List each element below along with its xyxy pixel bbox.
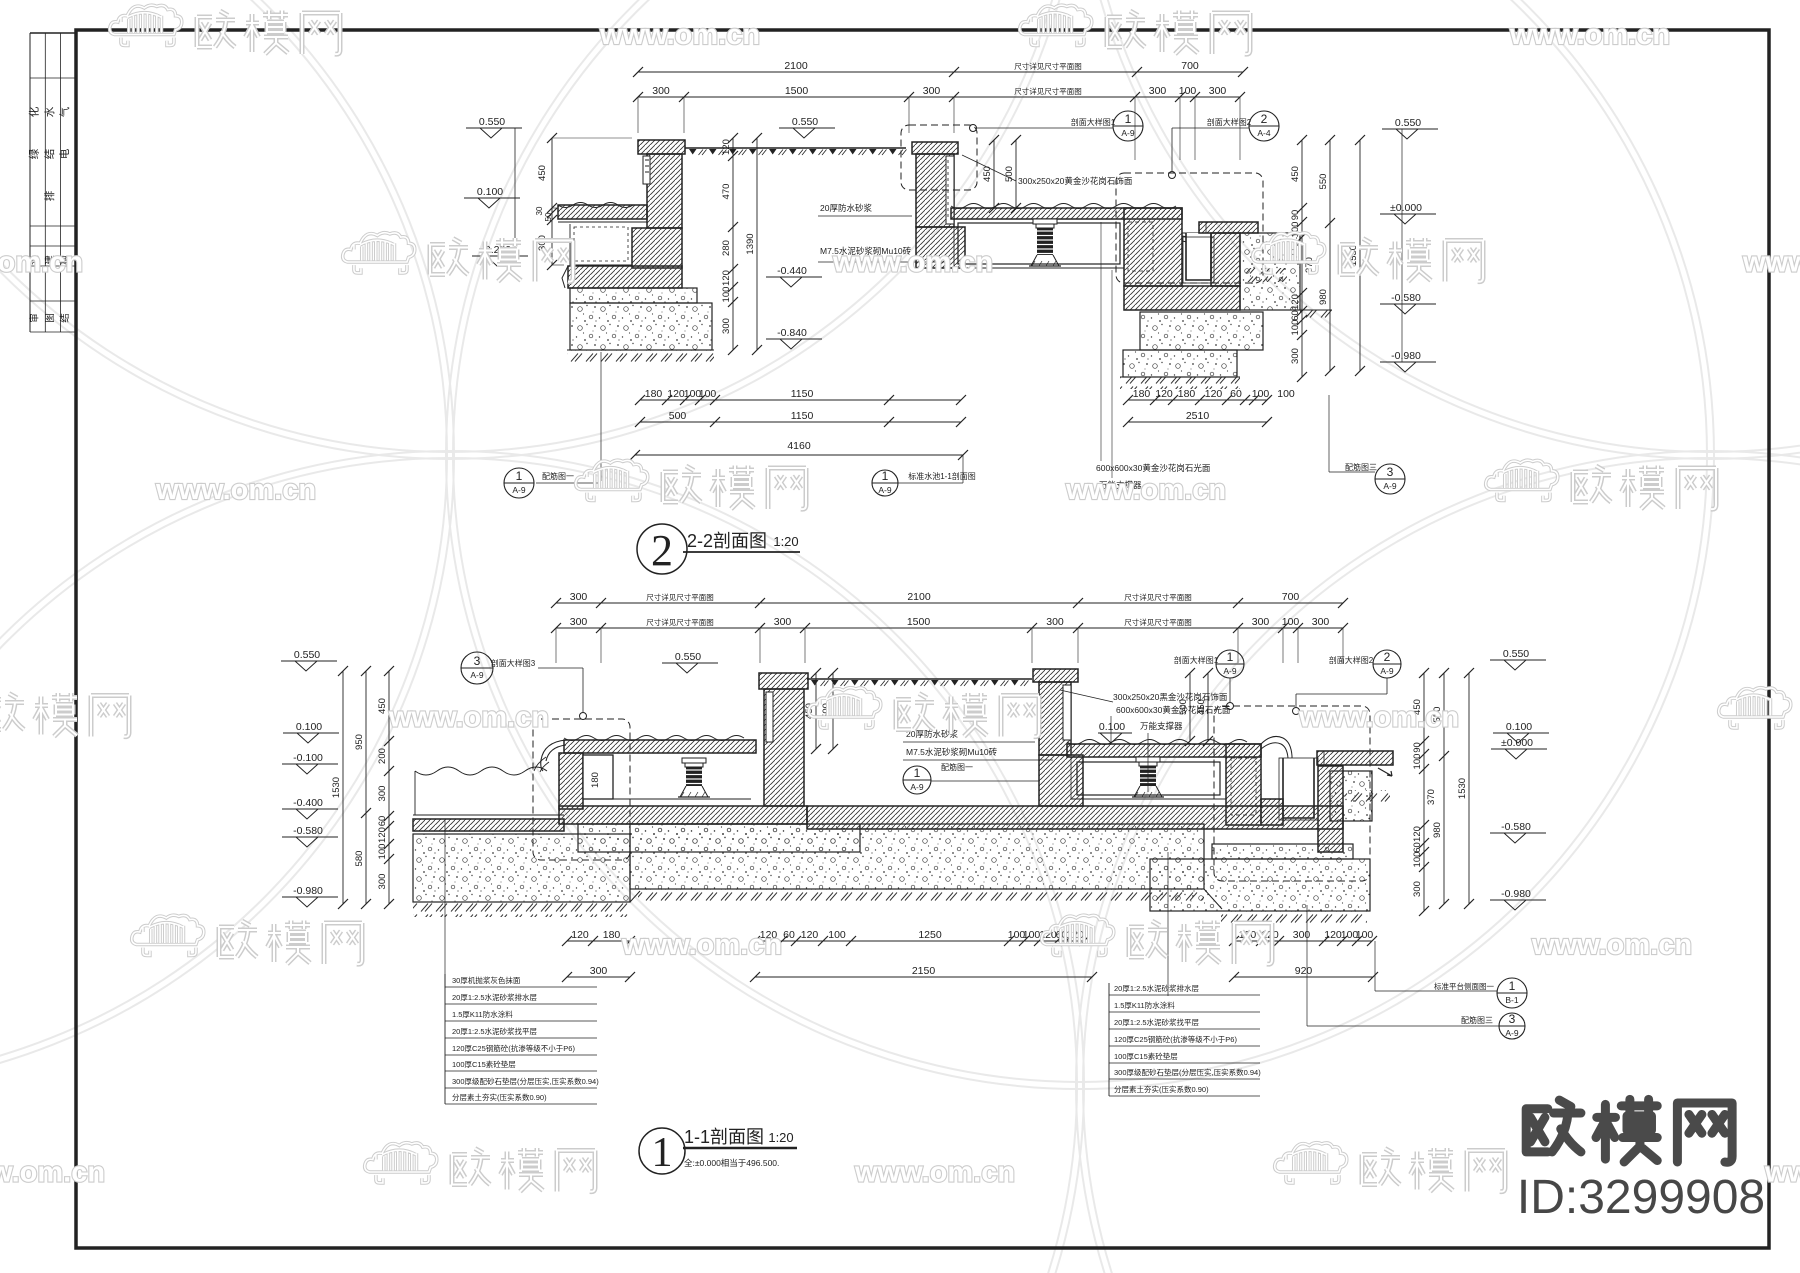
dashed callout rect 3 <box>533 719 630 860</box>
svg-text:20厚1:2.5水泥砂浆排水层: 20厚1:2.5水泥砂浆排水层 <box>1114 983 1200 993</box>
right upstand <box>1124 208 1182 286</box>
svg-text:100: 100 <box>1023 929 1041 941</box>
svg-text:1: 1 <box>516 469 523 483</box>
title block table <box>30 32 76 34</box>
detail callout rect 2 <box>1116 173 1263 283</box>
svg-text:结: 结 <box>43 149 56 160</box>
notes column left <box>444 974 446 1104</box>
weir spout <box>541 740 566 771</box>
svg-text:0.550: 0.550 <box>294 649 320 661</box>
pedestal <box>1136 757 1160 762</box>
right footing <box>1140 312 1263 350</box>
svg-text:450: 450 <box>1196 699 1207 715</box>
svg-text:300: 300 <box>377 874 388 890</box>
wall cap dims <box>815 673 817 749</box>
svg-text:300: 300 <box>1209 85 1227 97</box>
svg-text:370: 370 <box>1426 789 1437 805</box>
svg-text:水: 水 <box>44 106 56 117</box>
right dim stacks <box>1423 673 1425 911</box>
svg-text:120: 120 <box>1290 294 1301 310</box>
svg-text:90: 90 <box>1412 742 1423 753</box>
svg-text:100: 100 <box>1282 616 1300 628</box>
svg-text:100: 100 <box>377 844 388 860</box>
drain channel <box>1283 758 1314 818</box>
right curb paving <box>1317 751 1393 765</box>
svg-text:300: 300 <box>570 616 588 628</box>
om.cn logo <box>1526 1099 1732 1162</box>
svg-text:120: 120 <box>1205 388 1223 400</box>
svg-text:20厚1:2.5水泥砂浆找平层: 20厚1:2.5水泥砂浆找平层 <box>1114 1017 1200 1027</box>
svg-text:A-9: A-9 <box>1383 481 1397 491</box>
svg-text:120: 120 <box>1412 826 1423 842</box>
right soil <box>1330 771 1372 821</box>
svg-text:100: 100 <box>1179 85 1197 97</box>
svg-text:绿: 绿 <box>28 148 41 159</box>
svg-text:450: 450 <box>982 166 993 182</box>
svg-text:尺寸详见尺寸平面图: 尺寸详见尺寸平面图 <box>1124 617 1192 627</box>
right dim stacks <box>1301 140 1303 377</box>
svg-text:60: 60 <box>1412 842 1423 853</box>
svg-text:120: 120 <box>667 388 685 400</box>
svg-text:300: 300 <box>570 591 588 603</box>
bottom dims left group <box>640 399 715 401</box>
svg-text:980: 980 <box>1432 822 1443 838</box>
left wall body <box>647 154 682 228</box>
svg-text:剖面大样图2: 剖面大样图2 <box>1207 117 1252 127</box>
svg-text:剖面大样图1: 剖面大样图1 <box>1071 117 1116 127</box>
top dim chains <box>638 71 1243 73</box>
svg-text:1500: 1500 <box>907 616 931 628</box>
svg-text:标准平台侧面图一: 标准平台侧面图一 <box>1434 981 1494 991</box>
svg-text:0.550: 0.550 <box>675 651 701 663</box>
top dim chains <box>556 602 1343 604</box>
deck void <box>1070 757 1072 799</box>
wall lining right <box>946 156 954 224</box>
channel right wall <box>1318 766 1343 852</box>
svg-text:300: 300 <box>1252 616 1270 628</box>
right soil block <box>1240 233 1300 310</box>
ground hatch right <box>1120 377 1240 389</box>
detail callout rect 1 <box>901 125 977 190</box>
svg-text:20厚防水砂浆: 20厚防水砂浆 <box>820 203 872 213</box>
svg-text:-0.980: -0.980 <box>1501 888 1531 900</box>
svg-text:1:20: 1:20 <box>768 1130 793 1145</box>
plaza row <box>807 678 1032 680</box>
mid vertical dim chain <box>732 138 734 350</box>
svg-text:2150: 2150 <box>912 965 936 977</box>
svg-text:1: 1 <box>914 766 921 780</box>
svg-text:1150: 1150 <box>791 410 814 422</box>
svg-text:0.100: 0.100 <box>477 186 503 198</box>
center wall body <box>916 154 954 227</box>
rebar callout mid <box>903 766 931 794</box>
svg-text:1530: 1530 <box>331 777 342 798</box>
svg-text:450: 450 <box>537 165 548 181</box>
svg-text:600x600x30黄金沙花岗石光面: 600x600x30黄金沙花岗石光面 <box>1116 705 1231 715</box>
svg-text:300: 300 <box>1412 881 1423 897</box>
svg-text:300x250x20黑金沙花岗石饰面: 300x250x20黑金沙花岗石饰面 <box>1113 692 1228 702</box>
center wall cap <box>912 142 958 154</box>
svg-text:450: 450 <box>1290 166 1301 182</box>
svg-text:300: 300 <box>590 965 608 977</box>
svg-text:0.100: 0.100 <box>1506 721 1532 733</box>
pedestal <box>682 758 706 763</box>
svg-text:1: 1 <box>1227 650 1234 664</box>
svg-text:120: 120 <box>571 929 589 941</box>
svg-text:2: 2 <box>651 526 673 575</box>
svg-text:-0.400: -0.400 <box>293 797 323 809</box>
svg-text:A-9: A-9 <box>910 782 924 792</box>
svg-text:-0.100: -0.100 <box>293 752 323 764</box>
cap dims 450/500 <box>993 140 995 208</box>
svg-text:300: 300 <box>1290 348 1301 364</box>
svg-text:剖面大样图3: 剖面大样图3 <box>491 658 536 668</box>
svg-text:图: 图 <box>45 313 56 323</box>
svg-text:100: 100 <box>828 929 846 941</box>
svg-text:700: 700 <box>1282 591 1300 603</box>
svg-text:www.om.cn: www.om.cn <box>1509 19 1670 51</box>
svg-text:尺寸详见尺寸平面图: 尺寸详见尺寸平面图 <box>1124 592 1192 602</box>
svg-text:100: 100 <box>721 287 732 303</box>
svg-text:剖面大样图2: 剖面大样图2 <box>1329 655 1374 665</box>
leader to rebar callout <box>600 352 602 481</box>
svg-text:950: 950 <box>354 734 365 750</box>
svg-text:A-4: A-4 <box>1257 128 1271 138</box>
svg-text:化: 化 <box>28 106 41 117</box>
deck slab on pedestals <box>951 208 1182 219</box>
notes leader left <box>444 820 446 988</box>
svg-text:180: 180 <box>590 772 601 788</box>
svg-text:全:±0.000相当于496.500.: 全:±0.000相当于496.500. <box>684 1158 779 1168</box>
svg-text:120: 120 <box>377 827 388 843</box>
svg-text:剖面大样图1: 剖面大样图1 <box>1174 655 1219 665</box>
svg-text:300厚级配砂石垫层(分层压实,压实系数0.94): 300厚级配砂石垫层(分层压实,压实系数0.94) <box>452 1076 599 1086</box>
svg-text:1-1剖面图: 1-1剖面图 <box>684 1127 764 1147</box>
center wall cap <box>1033 669 1078 682</box>
watermark tiles <box>110 5 340 54</box>
base slab right <box>1124 286 1240 310</box>
svg-text:尺寸详见尺寸平面图: 尺寸详见尺寸平面图 <box>646 617 714 627</box>
svg-text:2: 2 <box>1261 112 1268 126</box>
pool left break edge <box>414 771 416 815</box>
svg-text:配筋图一: 配筋图一 <box>941 762 973 772</box>
svg-text:1.5厚K11防水涂料: 1.5厚K11防水涂料 <box>1114 1000 1175 1010</box>
deck slab right section <box>1067 744 1261 757</box>
svg-text:-0.580: -0.580 <box>1391 292 1421 304</box>
svg-text:300: 300 <box>721 318 732 334</box>
svg-text:450: 450 <box>377 698 388 714</box>
svg-text:www.om.cn: www.om.cn <box>0 247 83 279</box>
svg-text:300: 300 <box>923 85 941 97</box>
planter void liner <box>569 224 571 266</box>
svg-text:100: 100 <box>1277 388 1295 400</box>
pocket <box>583 755 613 799</box>
svg-text:60: 60 <box>377 816 388 827</box>
overall 4160 <box>635 454 963 456</box>
svg-text:www.om.cn: www.om.cn <box>854 1157 1015 1189</box>
svg-text:0.100: 0.100 <box>296 721 322 733</box>
svg-text:120: 120 <box>721 270 732 286</box>
svg-text:180: 180 <box>603 929 621 941</box>
svg-text:A-9: A-9 <box>1121 128 1135 138</box>
svg-text:www.om.cn: www.om.cn <box>1764 1157 1800 1189</box>
svg-text:300: 300 <box>652 85 670 97</box>
svg-text:20厚1:2.5水泥砂浆找平层: 20厚1:2.5水泥砂浆找平层 <box>452 1026 538 1036</box>
svg-text:600x600x30黄金沙花岗石光面: 600x600x30黄金沙花岗石光面 <box>1096 463 1211 473</box>
svg-text:-0.580: -0.580 <box>293 825 323 837</box>
overflow lip <box>1182 236 1210 257</box>
center wall body <box>1039 682 1071 755</box>
svg-text:M7.5水泥砂浆砌Mu10砖: M7.5水泥砂浆砌Mu10砖 <box>906 747 998 757</box>
svg-text:300x250x20黄金沙花岗石饰面: 300x250x20黄金沙花岗石饰面 <box>1018 176 1133 186</box>
svg-text:1:20: 1:20 <box>773 534 798 549</box>
svg-text:尺寸详见尺寸平面图: 尺寸详见尺寸平面图 <box>646 592 714 602</box>
deck void <box>613 798 751 800</box>
pedestal support <box>1033 219 1057 224</box>
left paving slab <box>558 205 647 219</box>
svg-text:120: 120 <box>1155 388 1173 400</box>
right curb paving <box>1199 222 1258 233</box>
svg-text:-0.440: -0.440 <box>777 265 807 277</box>
svg-text:±0.000: ±0.000 <box>1390 202 1422 214</box>
pool floor <box>413 814 564 816</box>
svg-text:30厚机抛浆灰色抹面: 30厚机抛浆灰色抹面 <box>452 975 521 985</box>
svg-text:www.om.cn: www.om.cn <box>599 19 760 51</box>
left section right wall <box>764 689 804 806</box>
svg-text:1530: 1530 <box>1457 778 1468 799</box>
left vertical dim chain <box>551 138 553 265</box>
svg-text:300: 300 <box>1149 85 1167 97</box>
svg-text:580: 580 <box>354 851 365 867</box>
svg-text:60: 60 <box>783 929 795 941</box>
svg-text:B-1: B-1 <box>1505 995 1519 1005</box>
left wall cap <box>638 140 685 154</box>
svg-text:www.om.cn: www.om.cn <box>388 702 549 734</box>
title 1-1 <box>639 1128 685 1174</box>
wall lining strip <box>643 156 650 184</box>
svg-text:www.om.cn: www.om.cn <box>0 1157 105 1189</box>
svg-text:920: 920 <box>1295 965 1313 977</box>
title 2-2 <box>637 524 687 574</box>
pool water surface <box>415 767 547 775</box>
svg-text:200: 200 <box>377 748 388 764</box>
svg-text:A-9: A-9 <box>1223 666 1237 676</box>
svg-text:审: 审 <box>29 313 41 323</box>
svg-text:120: 120 <box>721 139 732 155</box>
svg-text:300: 300 <box>1046 616 1064 628</box>
svg-text:A-9: A-9 <box>470 670 484 680</box>
svg-text:A-9: A-9 <box>512 485 526 495</box>
svg-text:1.5厚K11防水涂料: 1.5厚K11防水涂料 <box>452 1009 513 1019</box>
svg-text:180: 180 <box>1133 388 1151 400</box>
deck support wall <box>559 753 583 809</box>
svg-text:120: 120 <box>1324 929 1342 941</box>
svg-text:1150: 1150 <box>791 388 814 400</box>
svg-text:1390: 1390 <box>745 233 756 254</box>
svg-text:60: 60 <box>1230 388 1242 400</box>
svg-text:4160: 4160 <box>787 440 811 452</box>
svg-text:3: 3 <box>1387 465 1394 479</box>
channel right wall <box>1211 233 1240 286</box>
ground hatch left <box>567 350 714 362</box>
svg-text:1: 1 <box>1125 112 1132 126</box>
svg-text:300: 300 <box>1312 616 1330 628</box>
svg-text:ID:3299908: ID:3299908 <box>1517 1171 1765 1224</box>
svg-text:30: 30 <box>535 206 544 215</box>
svg-text:A-9: A-9 <box>1380 666 1394 676</box>
svg-text:配筋图一: 配筋图一 <box>542 471 574 481</box>
svg-text:500: 500 <box>1004 166 1015 182</box>
svg-text:0.550: 0.550 <box>479 116 505 128</box>
svg-text:3: 3 <box>474 654 481 668</box>
svg-text:www.om.cn: www.om.cn <box>621 929 782 961</box>
pool name callout <box>872 470 898 496</box>
svg-text:结: 结 <box>59 313 71 323</box>
left section right wall cap <box>759 673 808 689</box>
svg-text:3: 3 <box>1509 1012 1516 1026</box>
svg-text:300厚级配砂石垫层(分层压实,压实系数0.94): 300厚级配砂石垫层(分层压实,压实系数0.94) <box>1114 1067 1261 1077</box>
svg-text:470: 470 <box>721 184 732 200</box>
watermark arcs <box>0 0 447 1082</box>
deck void <box>953 219 955 268</box>
svg-text:550: 550 <box>1318 174 1329 190</box>
right upstand <box>1226 744 1261 825</box>
svg-text:1: 1 <box>882 469 889 483</box>
svg-text:700: 700 <box>1181 60 1199 72</box>
svg-text:20厚1:2.5水泥砂浆排水层: 20厚1:2.5水泥砂浆排水层 <box>452 992 538 1002</box>
footings <box>578 824 860 852</box>
callout circle 3 <box>461 652 493 684</box>
bottom dims <box>567 940 630 942</box>
svg-text:气: 气 <box>58 106 71 117</box>
svg-text:2-2剖面图: 2-2剖面图 <box>687 531 767 551</box>
svg-text:180: 180 <box>1178 388 1196 400</box>
svg-text:2100: 2100 <box>784 60 808 72</box>
left footing <box>570 288 697 303</box>
svg-text:2100: 2100 <box>907 591 931 603</box>
svg-text:www.om.cn: www.om.cn <box>1742 247 1800 279</box>
svg-text:100: 100 <box>699 388 717 400</box>
svg-text:100: 100 <box>1290 320 1301 336</box>
rebar callout left <box>504 468 534 498</box>
drain channel <box>1182 232 1218 234</box>
svg-text:www.om.cn: www.om.cn <box>1065 474 1226 506</box>
svg-text:300: 300 <box>774 616 792 628</box>
svg-text:万能支撑器: 万能支撑器 <box>1140 721 1183 731</box>
svg-text:-0.980: -0.980 <box>293 885 323 897</box>
svg-text:±0.000: ±0.000 <box>1501 737 1533 749</box>
slope arrow <box>1378 768 1392 776</box>
svg-text:-0.580: -0.580 <box>1501 821 1531 833</box>
svg-text:分层素土夯实(压实系数0.90): 分层素土夯实(压实系数0.90) <box>452 1092 547 1102</box>
svg-text:120厚C25钢筋砼(抗渗等级不小于P6): 120厚C25钢筋砼(抗渗等级不小于P6) <box>1114 1034 1237 1044</box>
svg-text:300: 300 <box>377 786 388 802</box>
ground rows <box>413 902 630 917</box>
svg-text:0.550: 0.550 <box>1395 117 1421 129</box>
notes column right <box>1108 983 1110 1096</box>
svg-text:1: 1 <box>652 1130 673 1176</box>
dashed callout rect (right) <box>1214 706 1370 881</box>
svg-text:100: 100 <box>1412 852 1423 868</box>
svg-text:0.100: 0.100 <box>1099 721 1125 733</box>
svg-text:100: 100 <box>1252 388 1270 400</box>
left dim stacks <box>342 671 344 904</box>
base slab left <box>568 266 682 288</box>
svg-text:120厚C25钢筋砼(抗渗等级不小于P6): 120厚C25钢筋砼(抗渗等级不小于P6) <box>452 1043 575 1053</box>
svg-text:标准水池1-1剖面图: 标准水池1-1剖面图 <box>908 471 976 481</box>
svg-text:排: 排 <box>43 190 56 201</box>
svg-text:300: 300 <box>1293 929 1311 941</box>
svg-text:280: 280 <box>721 240 732 256</box>
svg-text:50: 50 <box>544 212 553 221</box>
svg-text:100厚C15素砼垫层: 100厚C15素砼垫层 <box>452 1059 516 1069</box>
svg-text:180: 180 <box>645 388 663 400</box>
svg-text:电: 电 <box>58 148 71 159</box>
svg-text:2: 2 <box>1384 650 1391 664</box>
svg-text:2510: 2510 <box>1186 410 1210 422</box>
plaza paving row <box>685 147 906 149</box>
svg-text:配筋图三: 配筋图三 <box>1345 462 1377 472</box>
svg-text:www.om.cn: www.om.cn <box>1298 702 1459 734</box>
notes leader right <box>1167 852 1169 996</box>
svg-text:配筋图三: 配筋图三 <box>1461 1015 1493 1025</box>
svg-text:www.om.cn: www.om.cn <box>1531 929 1692 961</box>
svg-text:980: 980 <box>1318 289 1329 305</box>
deck slab left section <box>564 740 756 753</box>
svg-text:尺寸详见尺寸平面图: 尺寸详见尺寸平面图 <box>1014 61 1082 71</box>
svg-text:100: 100 <box>1412 754 1423 770</box>
svg-text:120: 120 <box>801 929 819 941</box>
svg-text:100: 100 <box>1356 929 1374 941</box>
svg-text:0.550: 0.550 <box>1503 648 1529 660</box>
svg-text:www.om.cn: www.om.cn <box>832 247 993 279</box>
svg-text:分层素土夯实(压实系数0.90): 分层素土夯实(压实系数0.90) <box>1114 1084 1209 1094</box>
svg-text:www.om.cn: www.om.cn <box>155 474 316 506</box>
svg-text:500: 500 <box>669 410 687 422</box>
svg-text:100厚C15素砼垫层: 100厚C15素砼垫层 <box>1114 1051 1178 1061</box>
svg-text:60: 60 <box>1290 310 1301 321</box>
svg-text:A-9: A-9 <box>1505 1028 1519 1038</box>
bottom dims right group <box>1128 399 1267 401</box>
svg-text:尺寸详见尺寸平面图: 尺寸详见尺寸平面图 <box>1014 86 1082 96</box>
svg-text:A-9: A-9 <box>878 485 892 495</box>
svg-text:-0.980: -0.980 <box>1391 350 1421 362</box>
svg-text:1500: 1500 <box>785 85 809 97</box>
overflow lip <box>1261 736 1292 764</box>
svg-text:1250: 1250 <box>918 929 942 941</box>
svg-text:1: 1 <box>1509 979 1516 993</box>
svg-text:500: 500 <box>1178 699 1189 715</box>
base slabs <box>559 806 807 824</box>
svg-text:90: 90 <box>1290 210 1301 221</box>
svg-text:-0.840: -0.840 <box>777 327 807 339</box>
svg-text:0.550: 0.550 <box>792 116 818 128</box>
